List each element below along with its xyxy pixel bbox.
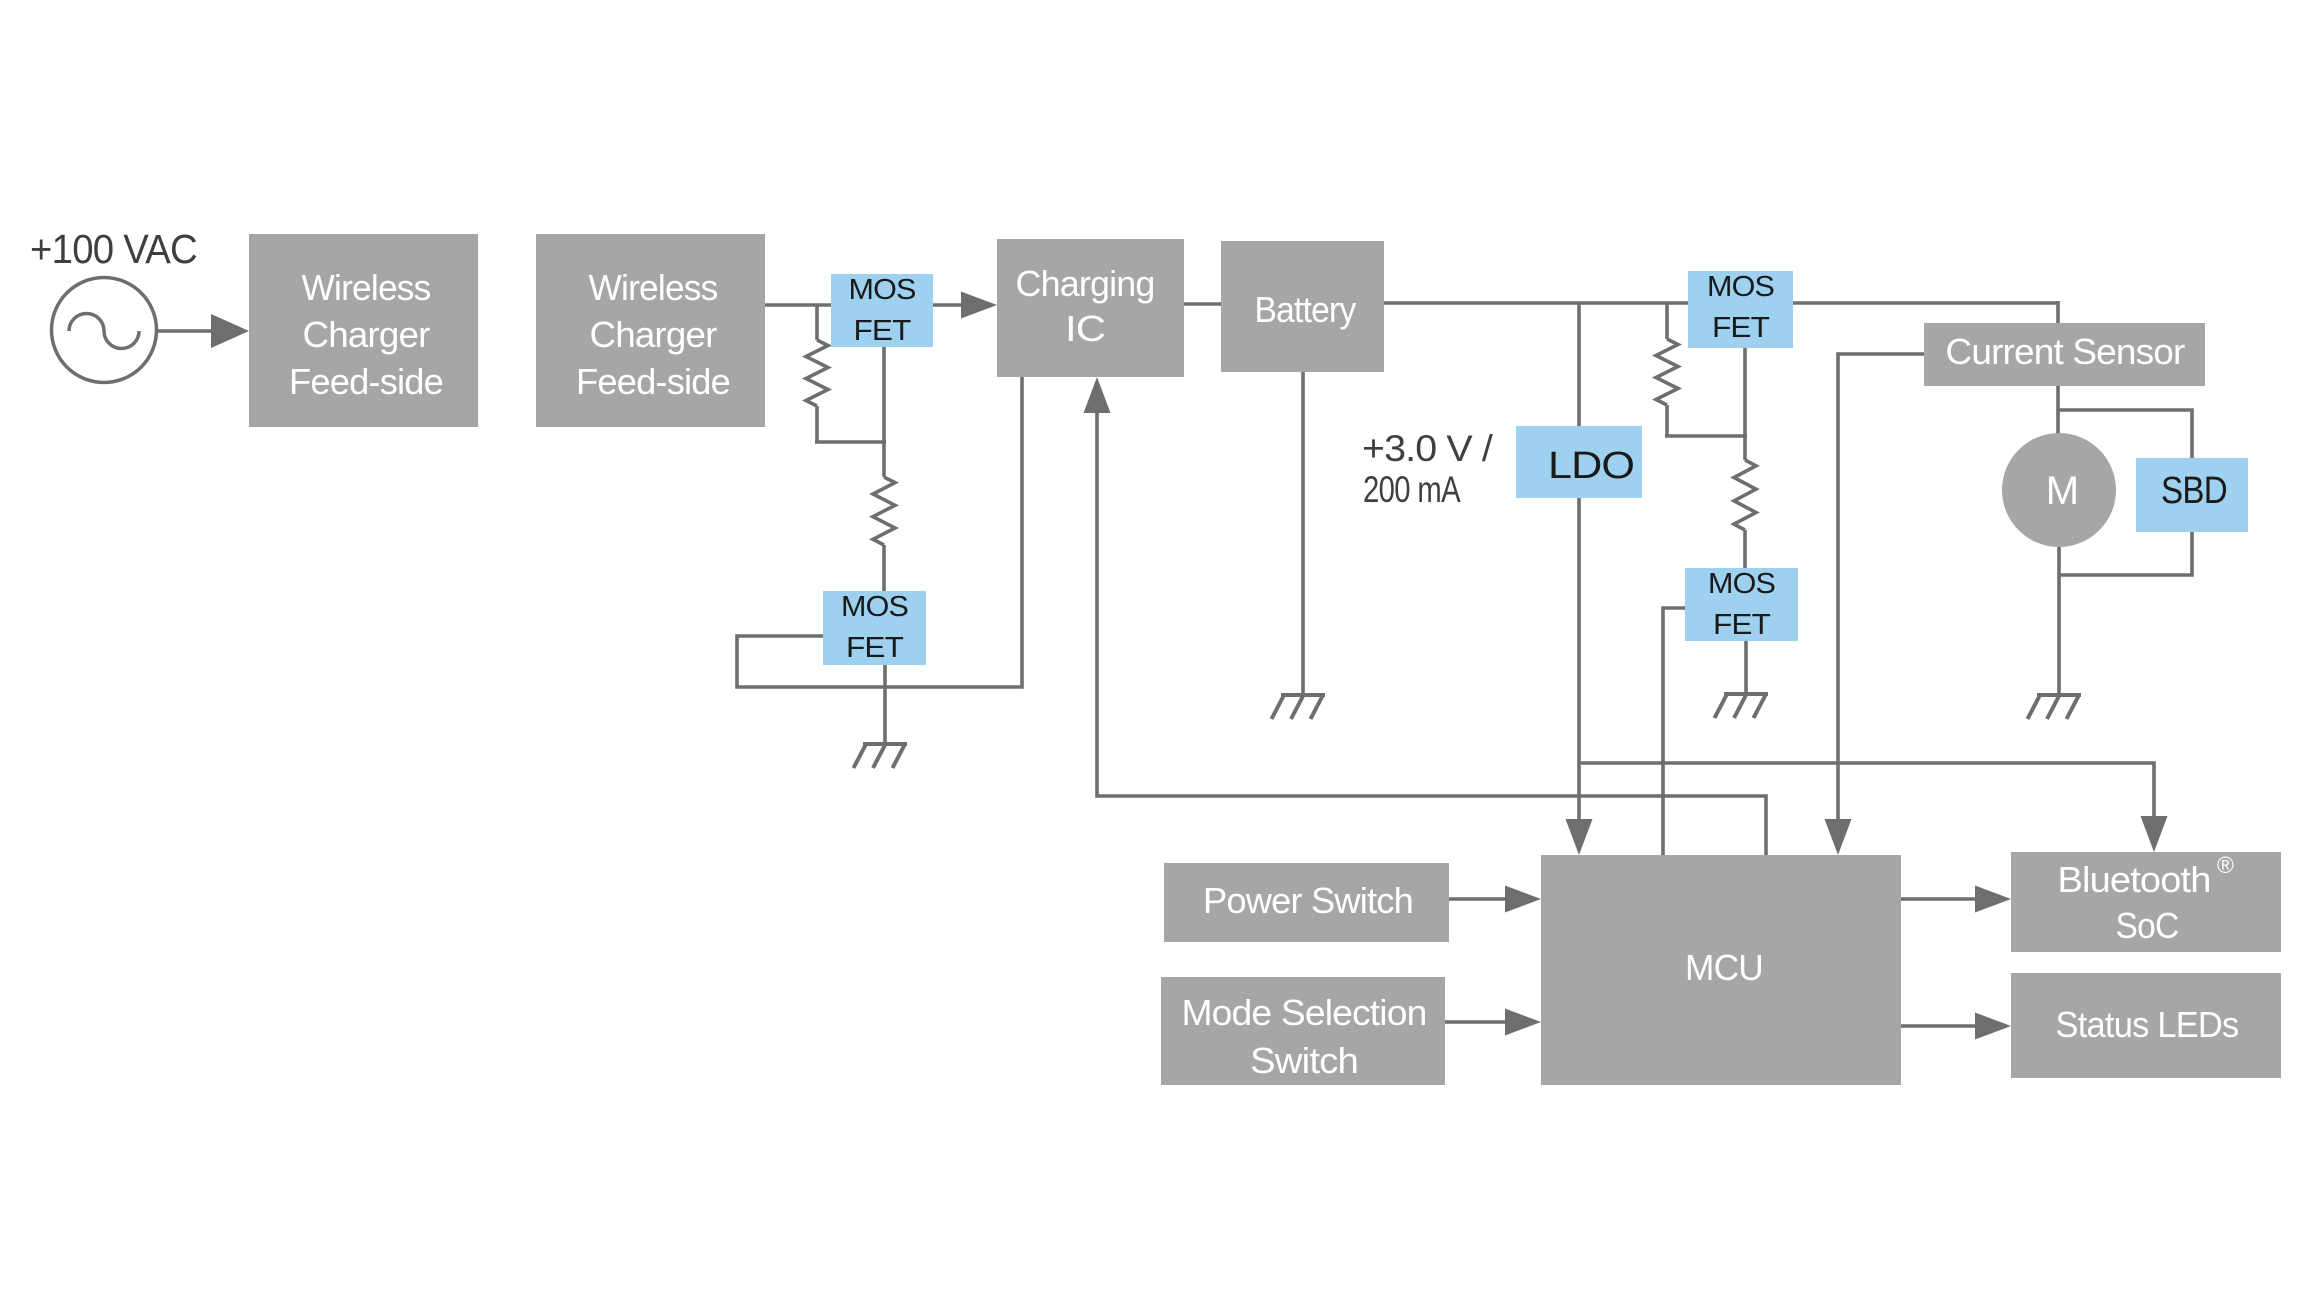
svg-text:Charging: Charging (1016, 263, 1155, 304)
svg-text:FET: FET (854, 315, 912, 347)
svg-text:Bluetooth: Bluetooth (2058, 859, 2211, 900)
svg-text:+3.0 V /: +3.0 V / (1362, 428, 1494, 469)
svg-text:Charger: Charger (590, 314, 718, 355)
svg-text:Wireless: Wireless (589, 267, 718, 308)
svg-text:MOS: MOS (841, 591, 908, 623)
svg-text:Status LEDs: Status LEDs (2056, 1004, 2239, 1045)
svg-text:+100 VAC: +100 VAC (30, 226, 197, 272)
svg-text:FET: FET (846, 632, 904, 664)
svg-text:®: ® (2217, 852, 2234, 878)
svg-text:Feed-side: Feed-side (576, 361, 730, 402)
svg-text:Switch: Switch (1250, 1040, 1358, 1081)
svg-text:FET: FET (1713, 609, 1771, 641)
svg-text:SBD: SBD (2161, 470, 2227, 512)
svg-text:M: M (2046, 469, 2079, 513)
svg-text:Current Sensor: Current Sensor (1946, 331, 2186, 372)
svg-text:IC: IC (1065, 308, 1105, 349)
svg-text:Feed-side: Feed-side (289, 361, 443, 402)
svg-text:MOS: MOS (849, 274, 916, 306)
svg-text:Charger: Charger (303, 314, 431, 355)
svg-text:200 mA: 200 mA (1363, 469, 1461, 510)
svg-text:SoC: SoC (2116, 905, 2179, 946)
svg-text:Wireless: Wireless (302, 267, 431, 308)
svg-text:LDO: LDO (1548, 445, 1634, 487)
svg-text:Battery: Battery (1255, 289, 1357, 330)
svg-text:Mode Selection: Mode Selection (1182, 992, 1427, 1033)
svg-text:Power Switch: Power Switch (1203, 880, 1413, 921)
svg-text:MCU: MCU (1685, 947, 1763, 988)
svg-text:FET: FET (1712, 312, 1770, 344)
svg-text:MOS: MOS (1707, 271, 1774, 303)
svg-text:MOS: MOS (1708, 568, 1775, 600)
